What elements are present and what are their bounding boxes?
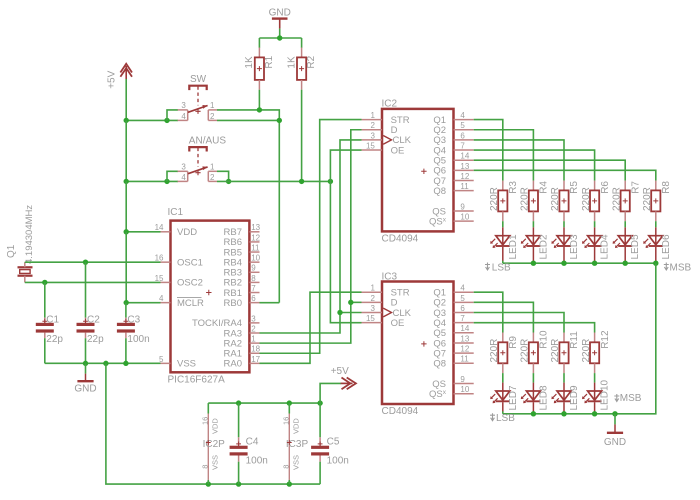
svg-text:RB0: RB0 (224, 298, 242, 309)
wire OSC2 net (25, 281, 161, 283)
svg-text:220R: 220R (520, 187, 531, 211)
svg-text:7: 7 (460, 141, 465, 150)
LED LED9 (551, 383, 580, 412)
svg-text:+5V: +5V (331, 366, 349, 377)
svg-text:4: 4 (460, 111, 465, 120)
wire VSS net rail (45, 362, 161, 364)
svg-text:Q8: Q8 (433, 186, 446, 197)
LED LED3 (551, 227, 580, 261)
IC2 right pin Q2 5 (433, 121, 473, 136)
IC3 right pin Q7 12 (433, 345, 473, 360)
switch AN/AUS (178, 135, 227, 181)
svg-text:220R: 220R (581, 187, 592, 211)
wire AN/AUS pin1 bracket right (217, 171, 229, 181)
svg-text:OE: OE (391, 145, 405, 156)
IC1 right pin RB3 9 (224, 264, 260, 279)
IC2 right pin QS* 10 (429, 213, 474, 228)
junction bottom +5V C4 (236, 400, 241, 405)
junction row2 common (561, 411, 566, 416)
junction row2 common GND (612, 411, 617, 416)
svg-text:16: 16 (281, 417, 290, 425)
wire +5V rail to switch AN/AUS (126, 180, 178, 182)
svg-text:9: 9 (251, 264, 256, 273)
junction +5V at trunk AN/AUS (124, 179, 129, 184)
svg-text:22p: 22p (46, 334, 63, 345)
svg-text:GND: GND (604, 437, 626, 448)
wire LED7 cathode to common (502, 411, 504, 414)
wire IC2 Q3 to R5 (474, 140, 564, 181)
svg-text:9: 9 (460, 202, 465, 211)
wire LED row1 common (503, 262, 656, 264)
LED LED5 (613, 227, 642, 261)
wire net D IC2.D vertical (260, 130, 362, 343)
svg-text:RA0: RA0 (224, 359, 242, 370)
resistor R8 220R (642, 181, 672, 222)
wire LED3 cathode to common (563, 261, 565, 264)
svg-text:1: 1 (370, 111, 375, 120)
wire R3 to LED1 (502, 221, 504, 227)
svg-text:MCLR: MCLR (177, 298, 204, 309)
ground symbol GND left (74, 363, 96, 394)
wire LED4 cathode to common (594, 261, 596, 264)
IC3 right pin Q6 13 (433, 334, 473, 349)
wire R4 to LED2 (532, 221, 534, 227)
resistor R5 220R (550, 181, 580, 222)
wire R10 to LED8 (532, 373, 534, 383)
wire R2 top lead (301, 38, 303, 48)
resistor R4 220R (520, 181, 550, 222)
label MSB row2 (614, 393, 642, 404)
svg-text:12: 12 (251, 233, 260, 242)
junction bottom +5V IC3P (287, 400, 292, 405)
junction row2 common (531, 411, 536, 416)
svg-text:2: 2 (210, 173, 215, 182)
svg-text:MSB: MSB (670, 263, 692, 274)
wire SW pin3 bracket (167, 110, 178, 121)
svg-text:VDD: VDD (291, 418, 300, 434)
wire R8 to LED6 (655, 221, 657, 227)
IC1 right pin RB7 13 (224, 223, 261, 238)
resistor R12 220R (581, 330, 611, 373)
svg-text:1: 1 (251, 335, 256, 344)
svg-text:220R: 220R (642, 187, 653, 211)
wire R1 bottom lead (258, 90, 260, 110)
IC2 left pin D 2 (362, 121, 398, 136)
svg-text:12: 12 (460, 345, 469, 354)
IC1 left pin VDD 14 (155, 223, 198, 238)
svg-text:3: 3 (181, 162, 186, 171)
wire net STR3 IC3.STR to RA0 (260, 292, 362, 363)
wire net OE IC2.OE to IC3.OE (330, 150, 361, 323)
svg-text:R9: R9 (508, 336, 519, 349)
LED LED7 (490, 383, 519, 412)
svg-text:4.194304MHz: 4.194304MHz (24, 205, 35, 264)
IC2 left pin STR 1 (362, 111, 410, 126)
svg-text:4: 4 (159, 294, 164, 303)
IC3 right pin Q2 5 (433, 294, 473, 309)
wire R6 to LED4 (594, 221, 596, 227)
junction OE AN/AUS node (328, 179, 333, 184)
wire OSC1 net (25, 261, 161, 263)
junction row1 common (653, 261, 658, 266)
svg-text:220R: 220R (489, 187, 500, 211)
junction bottom rail IC2P (206, 481, 211, 486)
svg-text:MSB: MSB (620, 393, 642, 404)
wire LED8 cathode to common (532, 411, 534, 414)
svg-text:8: 8 (200, 465, 209, 469)
svg-text:220R: 220R (489, 339, 500, 363)
svg-text:SW: SW (190, 74, 207, 85)
junction row2 common (592, 411, 597, 416)
svg-text:7: 7 (251, 284, 256, 293)
svg-text:IC2P: IC2P (203, 439, 226, 450)
junction bottom +5V riser (317, 400, 322, 405)
wire R5 to LED3 (563, 221, 565, 227)
svg-text:1K: 1K (244, 56, 255, 69)
svg-text:12: 12 (460, 172, 469, 181)
wire +5V rail to switch SW (126, 119, 178, 121)
capacitor C4 100n (230, 403, 268, 484)
wire net CLK branch IC3.CLK (340, 312, 362, 314)
IC1 right pin RB2 8 (224, 274, 260, 289)
wire LED5 cathode to common (624, 261, 626, 264)
svg-text:2: 2 (210, 112, 215, 121)
wire +5V riser to arrow (320, 383, 341, 403)
wire VDD pin wire (126, 231, 160, 233)
resistor R11 220R (550, 331, 580, 373)
resistor R7 220R (611, 181, 641, 222)
svg-text:220R: 220R (550, 187, 561, 211)
wire MCLR pin wire (126, 302, 160, 304)
power pins IC3P (281, 403, 308, 484)
capacitor C5 100n (311, 403, 349, 484)
crystal Q1 4.194304MHz (6, 205, 35, 283)
top ground symbol GND (269, 7, 291, 28)
wire row1 common down to row2 (615, 263, 656, 414)
svg-text:OSC2: OSC2 (177, 278, 203, 289)
svg-text:9: 9 (460, 375, 465, 384)
svg-text:14: 14 (460, 152, 469, 161)
wire IC3 Q4 to R12 (474, 323, 595, 333)
svg-text:C5: C5 (327, 436, 340, 447)
wire R1 top lead (258, 38, 260, 48)
LED LED2 (521, 227, 550, 261)
capacitor C2 22p (77, 262, 105, 363)
junction VSS C3 (123, 361, 128, 366)
svg-text:14: 14 (155, 223, 164, 232)
IC IC3 CD4094 box (362, 271, 474, 417)
svg-text:22p: 22p (87, 334, 104, 345)
junction R2 AN/AUS node (299, 179, 304, 184)
svg-text:220R: 220R (550, 339, 561, 363)
svg-text:220R: 220R (520, 339, 531, 363)
svg-text:R11: R11 (569, 331, 580, 349)
IC3 right pin QS* 10 (429, 385, 474, 400)
IC3 left pin CLK 3 (362, 304, 412, 319)
IC2 left pin OE 15 (362, 141, 405, 156)
svg-text:3: 3 (181, 101, 186, 110)
junction MCLR C3 node (124, 300, 129, 305)
resistor R1 1K (244, 48, 275, 90)
IC1 left pin OSC2 15 (155, 274, 203, 289)
svg-text:R3: R3 (508, 181, 519, 194)
svg-text:R7: R7 (630, 181, 641, 194)
IC1 right pin RB4 10 (224, 254, 261, 269)
wire IC2 Q5 to R7 (474, 160, 626, 180)
svg-text:1K: 1K (286, 56, 297, 69)
wire +5V bottom rail (208, 402, 320, 404)
wire IC2 Q2 to R4 (474, 130, 534, 181)
wire +5V vertical trunk (125, 79, 127, 120)
svg-text:1: 1 (370, 284, 375, 293)
svg-text:15: 15 (366, 314, 375, 323)
junction net CLK at IC3.CLK (337, 310, 342, 315)
IC2 right pin Q4 7 (433, 141, 473, 156)
IC2 right pin Q6 13 (433, 162, 473, 177)
IC1 left pin MCLR 4 (159, 294, 204, 309)
IC1 right pin RA1 18 (224, 345, 261, 360)
svg-text:100n: 100n (246, 456, 268, 467)
wire LED2 cathode to common (532, 261, 534, 264)
svg-text:LED10: LED10 (600, 379, 611, 410)
junction VSS C2 GND (83, 361, 88, 366)
svg-text:C2: C2 (87, 314, 100, 325)
svg-text:220R: 220R (581, 339, 592, 363)
wire VSS drop to bottom rail (106, 363, 320, 484)
svg-text:VDD: VDD (177, 227, 197, 238)
wire +5V trunk to VDD (125, 181, 127, 231)
IC1 left pin OSC1 16 (155, 254, 203, 269)
svg-text:5: 5 (460, 294, 465, 303)
label MSB row1 (664, 263, 692, 274)
svg-text:15: 15 (155, 274, 164, 283)
IC1 right pin RB1 7 (224, 284, 260, 299)
power symbol +5V top (107, 64, 133, 89)
svg-text:VSS: VSS (177, 359, 196, 370)
IC IC1 PIC16F627A box (168, 207, 250, 385)
wire LED10 cathode to common (594, 411, 596, 414)
IC3 right pin Q4 7 (433, 314, 473, 329)
IC2 right pin Q5 14 (433, 152, 473, 167)
IC1 right pin RA2 1 (224, 335, 260, 350)
IC3 right pin Q1 4 (433, 284, 473, 299)
wire LED6 cathode to common (655, 261, 657, 264)
svg-text:IC1: IC1 (168, 207, 184, 218)
IC3 left pin STR 1 (362, 284, 410, 299)
wire net D branch IC3.D (351, 301, 362, 303)
wire +5V trunk to AN/AUS (125, 120, 127, 181)
wire AN/AUS pin3 bracket (167, 171, 178, 181)
junction OSC2 C1 (42, 280, 47, 285)
IC2 right pin Q1 4 (433, 111, 473, 126)
resistor R3 220R (489, 181, 519, 222)
IC3 right pin Q8 11 (433, 355, 473, 370)
svg-text:OSC1: OSC1 (177, 257, 203, 268)
svg-text:LED4: LED4 (600, 234, 611, 259)
junction row1 common (623, 261, 628, 266)
junction net D at IC3.D (348, 300, 353, 305)
LED LED8 (521, 383, 550, 412)
IC1 right pin RA3 2 (224, 324, 260, 339)
svg-text:13: 13 (251, 223, 260, 232)
wire net STR2 IC2.STR to RA1 (260, 120, 362, 354)
LED LED4 (582, 227, 611, 261)
wire LED row2 common (503, 413, 615, 415)
svg-text:11: 11 (460, 182, 469, 191)
svg-text:CD4094: CD4094 (382, 406, 419, 417)
svg-text:10: 10 (460, 213, 469, 222)
IC1 right pin RB5 11 (224, 243, 261, 258)
wire SW pins 1-2 to RB0 (217, 110, 279, 303)
svg-text:6: 6 (460, 131, 465, 140)
junction +5V at VDD (124, 229, 129, 234)
svg-text:LED6: LED6 (661, 234, 672, 259)
svg-text:VSS: VSS (291, 455, 300, 470)
power symbol +5V bottom arrow (331, 366, 356, 389)
svg-text:7: 7 (460, 314, 465, 323)
wire R12 to LED10 (594, 373, 596, 383)
svg-text:GND: GND (269, 7, 291, 18)
svg-text:Q8: Q8 (433, 359, 446, 370)
svg-text:5: 5 (460, 121, 465, 130)
IC2 right pin QS 9 (432, 202, 473, 217)
IC1 right pin TOCKI/RA4 3 (192, 314, 259, 329)
junction GND rail (277, 35, 282, 40)
svg-text:AN/AUS: AN/AUS (189, 135, 227, 146)
wire GND rail (259, 37, 301, 39)
svg-text:LED1: LED1 (508, 234, 519, 259)
junction row1 common (531, 261, 536, 266)
svg-text:C3: C3 (127, 314, 140, 325)
wire GND net to R1 R2 (279, 29, 281, 38)
svg-text:C1: C1 (46, 314, 59, 325)
svg-text:16: 16 (200, 417, 209, 425)
junction +5V at SW bracket (164, 118, 169, 123)
junction +5V at trunk (124, 118, 129, 123)
svg-text:10: 10 (460, 385, 469, 394)
svg-text:Q1: Q1 (6, 244, 17, 258)
svg-text:LSB: LSB (496, 413, 515, 424)
wire IC2 Q1 to R3 (474, 120, 503, 181)
svg-text:R10: R10 (539, 330, 550, 349)
svg-text:VSS: VSS (210, 455, 219, 470)
capacitor C1 22p (36, 282, 64, 363)
svg-text:10: 10 (251, 254, 260, 263)
svg-text:VDD: VDD (210, 418, 219, 434)
wire IC3 Q2 to R10 (474, 302, 534, 332)
svg-text:OE: OE (391, 318, 405, 329)
svg-text:2: 2 (251, 324, 256, 333)
svg-text:R4: R4 (539, 181, 550, 194)
IC2 left pin CLK 3 (362, 131, 412, 146)
wire IC3 Q3 to R11 (474, 313, 564, 333)
wire R7 to LED5 (624, 221, 626, 227)
LED LED10 (582, 379, 611, 411)
wire AN/AUS rail to OE (217, 180, 330, 182)
junction SW pin2 node (277, 118, 282, 123)
ground symbol GND right (604, 414, 626, 448)
svg-text:IC2: IC2 (382, 99, 398, 110)
svg-text:220R: 220R (611, 187, 622, 211)
IC IC2 CD4094 box (362, 99, 474, 245)
svg-text:1: 1 (210, 162, 215, 171)
svg-text:R5: R5 (569, 181, 580, 194)
svg-text:5: 5 (159, 355, 164, 364)
wire IC3 Q1 to R9 (474, 292, 503, 332)
svg-text:LED7: LED7 (508, 385, 519, 410)
svg-text:11: 11 (251, 243, 260, 252)
switch SW (178, 74, 217, 121)
wire +5V trunk to MCLR (125, 232, 127, 303)
svg-text:R1: R1 (264, 55, 275, 68)
junction OSC1 C2 (83, 259, 88, 264)
junction row1 common (592, 261, 597, 266)
junction +5V at AN/AUS bracket (164, 179, 169, 184)
IC3 left pin D 2 (362, 294, 398, 309)
resistor R2 1K (286, 48, 317, 90)
junction bottom rail IC3P (287, 481, 292, 486)
wire R11 to LED9 (563, 373, 565, 383)
wire SW pin2 (217, 119, 279, 121)
svg-text:R8: R8 (661, 181, 672, 194)
svg-text:IC3: IC3 (382, 271, 398, 282)
IC1 right pin RA0 17 (224, 355, 261, 370)
svg-text:R6: R6 (600, 181, 611, 194)
wire net CLK IC2.CLK vertical (260, 140, 362, 333)
junction AN/AUS bracket right (226, 179, 231, 184)
svg-text:LSB: LSB (492, 263, 511, 274)
IC3 right pin Q3 6 (433, 304, 473, 319)
junction row1 common (561, 261, 566, 266)
svg-text:100n: 100n (127, 334, 149, 345)
IC3 left pin OE 15 (362, 314, 405, 329)
svg-text:LED8: LED8 (538, 385, 549, 410)
junction VSS drop (103, 361, 108, 366)
svg-text:R12: R12 (600, 330, 611, 349)
IC3 right pin QS 9 (432, 375, 473, 390)
svg-text:LED5: LED5 (630, 234, 641, 259)
svg-text:+5V: +5V (107, 70, 118, 88)
resistor R6 220R (581, 181, 611, 222)
LED LED6 (643, 227, 672, 261)
svg-text:14: 14 (460, 324, 469, 333)
junction bottom rail C4 (236, 481, 241, 486)
svg-text:13: 13 (460, 162, 469, 171)
IC3 right pin Q5 14 (433, 324, 473, 339)
IC1 left pin VSS 5 (159, 355, 196, 370)
svg-text:3: 3 (251, 314, 256, 323)
label LSB row2 (490, 413, 515, 424)
wire IC2 Q6 to R8 (474, 170, 656, 180)
wire LED9 cathode to common (563, 411, 565, 414)
svg-text:1: 1 (210, 101, 215, 110)
svg-text:17: 17 (251, 355, 260, 364)
svg-text:PIC16F627A: PIC16F627A (168, 374, 226, 385)
svg-text:13: 13 (460, 334, 469, 343)
svg-text:CD4094: CD4094 (382, 233, 419, 244)
svg-text:8: 8 (251, 274, 256, 283)
svg-text:C4: C4 (246, 436, 259, 447)
svg-text:4: 4 (460, 284, 465, 293)
svg-text:16: 16 (155, 254, 164, 263)
svg-text:3: 3 (370, 304, 375, 313)
wire IC2 Q4 to R6 (474, 150, 595, 181)
svg-text:4: 4 (181, 173, 186, 182)
svg-text:100n: 100n (327, 456, 349, 467)
IC2 right pin Q3 6 (433, 131, 473, 146)
svg-text:R2: R2 (306, 55, 317, 68)
power pins IC2P (200, 403, 225, 484)
